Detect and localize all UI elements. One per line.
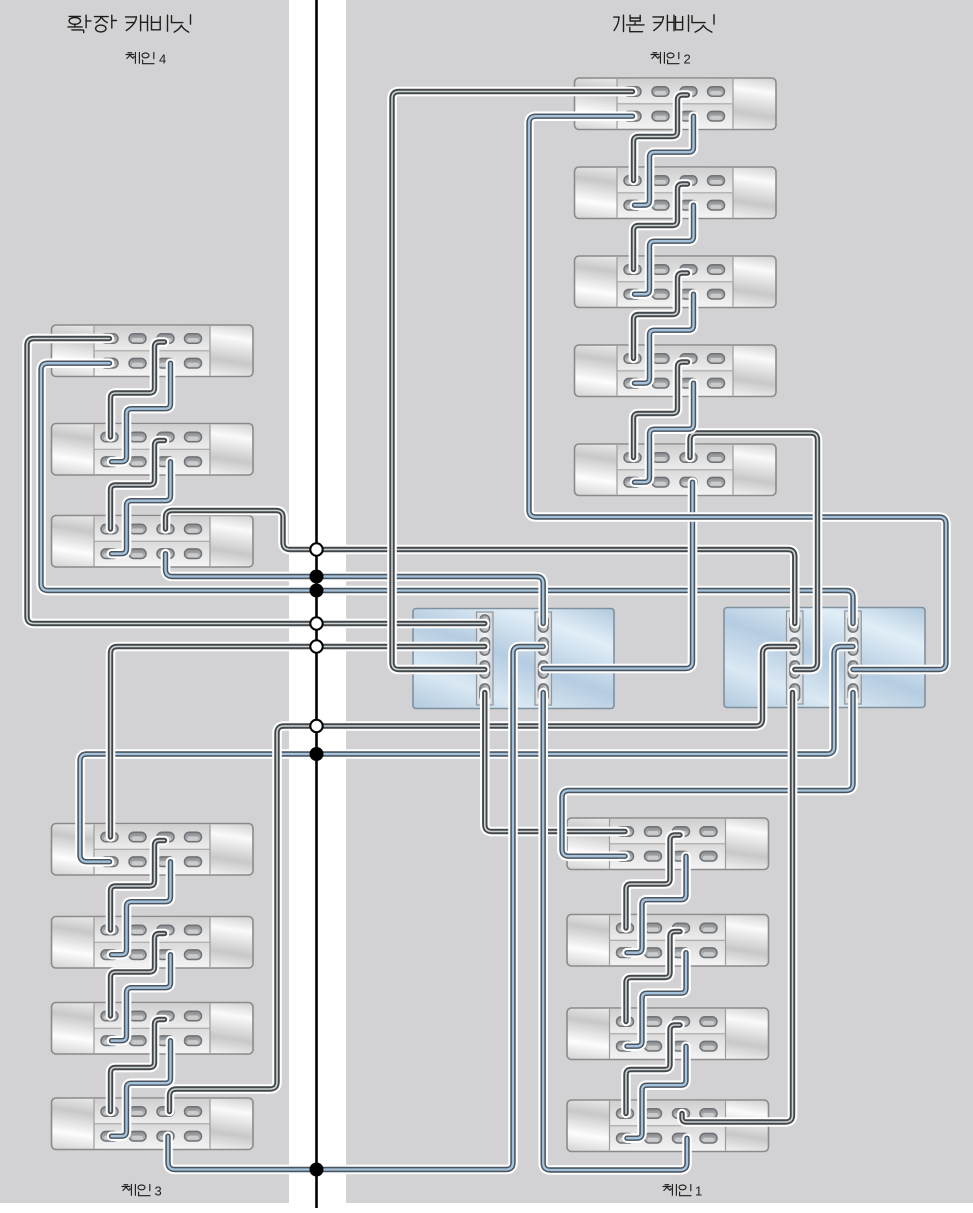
wire chain1 link1 blue	[627, 856, 686, 953]
base cabinet panel	[346, 0, 973, 1203]
label label chain2	[651, 53, 679, 64]
wire W12 chain3-shelf1 SAS to controller1 port2	[111, 647, 485, 838]
wire W4 controller2 port8 to chain1-shelf1	[562, 693, 853, 857]
label label chain3	[122, 1185, 150, 1196]
disk shelf chain3 DE 2	[52, 917, 254, 969]
controller 1	[413, 609, 614, 709]
wire chain1 link2 dark	[626, 932, 680, 1022]
wire W5 chain4-shelf1 SAS to controller1 port1	[27, 339, 485, 624]
wire W3 controller1 port4 to chain1-shelf1	[485, 693, 625, 832]
label title expansion cabinet	[68, 15, 191, 33]
junction open node y=549.5	[310, 543, 322, 555]
controller 2	[724, 608, 925, 708]
disk shelf chain2 DE 1	[575, 78, 777, 130]
wire chain3 link3 dark	[111, 1020, 165, 1112]
junction open node y=646.5	[310, 640, 322, 652]
disk shelf chain1 DE 3	[567, 1008, 769, 1060]
wire chain3 link3 blue	[112, 1041, 171, 1137]
wire chain4 link2 blue	[112, 462, 171, 554]
wire chain2 link4 blue	[635, 383, 694, 482]
junction filled node y=754	[310, 747, 324, 761]
label label chain4	[126, 53, 154, 64]
svg-text:3: 3	[155, 1184, 162, 1199]
wire chain2 link1 dark	[634, 95, 688, 181]
wire chain3 link1 dark	[111, 841, 165, 931]
junction open node y=726	[310, 720, 322, 732]
disk shelf chain1 DE 2	[567, 915, 769, 967]
wire W2 controller1 port8 to chain1-shelf4	[543, 693, 687, 1171]
wire chain2 link3 dark	[634, 273, 688, 359]
wire chain1 link3 blue	[627, 1046, 686, 1138]
disk shelf chain3 DE 4	[52, 1098, 254, 1150]
wire W6 chain4-shelf1 SAS to controller2 port5	[41, 363, 853, 623]
junction filled node y=1169.5	[310, 1163, 324, 1177]
wire chain4 link1 blue	[112, 363, 171, 462]
cabinet divider line	[315, 0, 318, 1208]
wire chain2 link2 dark	[634, 184, 688, 270]
wire W11 chain3-shelf1 SAS to controller2 port6	[80, 647, 853, 862]
wire W14 chain2-shelf5 SAS to controller1 port7	[543, 482, 692, 668]
disk shelf chain2 DE 3	[575, 256, 777, 308]
wire chain4 link2 dark	[111, 441, 165, 530]
wire chain2 link2 blue	[635, 205, 694, 294]
disk shelf chain1 DE 1	[567, 818, 769, 870]
disk shelf chain2 DE 5	[575, 444, 777, 496]
wire W16 chain2-shelf5 SAS to controller2 port3	[690, 433, 818, 670]
wire chain1 link2 blue	[627, 953, 686, 1046]
disk shelf chain3 DE 1	[52, 824, 254, 876]
wire chain2 link4 dark	[634, 362, 688, 458]
wire chain3 link1 blue	[112, 862, 171, 955]
disk shelf chain4 DE 2	[52, 424, 254, 476]
wire W17 chain2-shelf1 SAS to controller2 port7	[529, 116, 946, 669]
svg-text:4: 4	[159, 52, 166, 67]
wire chain4 link1 dark	[111, 342, 165, 437]
svg-text:2: 2	[684, 52, 691, 67]
label label chain1	[663, 1185, 691, 1196]
wire W10 chain4-shelf3 SAS to controller1 port5	[166, 554, 544, 624]
svg-text:1: 1	[695, 1184, 702, 1199]
wire chain1 link1 dark	[626, 835, 680, 928]
wire chain2 link3 blue	[635, 294, 694, 383]
disk shelf chain4 DE 1	[52, 325, 254, 377]
wire W13 chain2-shelf1 SAS to controller1 port3	[392, 92, 633, 670]
wire W1 chain3-shelf4 SAS to controller1 port6	[168, 647, 543, 1170]
wire chain3 link2 dark	[111, 934, 165, 1017]
wire W18 chain1-shelf4 SAS to controller2 port4	[682, 693, 793, 1123]
disk shelf chain2 DE 4	[575, 345, 777, 397]
junction filled node y=590.5	[310, 584, 324, 598]
wire chain3 link2 blue	[112, 955, 171, 1041]
wire chain1 link3 dark	[626, 1025, 680, 1114]
disk shelf chain4 DE 3	[52, 516, 254, 568]
wire chain2 link1 blue	[635, 116, 694, 205]
disk shelf chain2 DE 2	[575, 167, 777, 219]
junction filled node y=576.5	[310, 570, 324, 584]
expansion cabinet panel	[0, 0, 289, 1203]
disk shelf chain3 DE 3	[52, 1003, 254, 1055]
wire W15 chain3-shelf4 SAS to controller2 port2	[170, 647, 795, 1112]
wire W9 chain4-shelf3 SAS to controller2 port1	[166, 511, 795, 624]
label title base cabinet	[614, 15, 714, 32]
disk shelf chain1 DE 4	[567, 1100, 769, 1152]
junction open node y=623.5	[310, 617, 322, 629]
